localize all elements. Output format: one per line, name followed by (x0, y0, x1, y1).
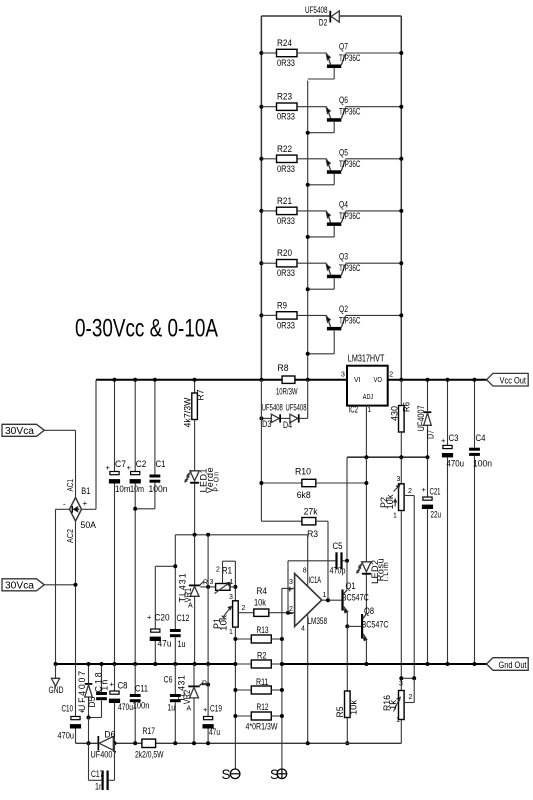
svg-text:R4: R4 (257, 586, 268, 596)
svg-text:VR1: VR1 (183, 588, 193, 603)
node D7 output tap (426, 378, 430, 382)
resistor R21 0R33 (261, 210, 276, 212)
capacitor C10 470u (71, 717, 80, 720)
svg-text:+: + (422, 485, 427, 494)
wire R1 right to loop (230, 586, 235, 588)
svg-text:UF5408: UF5408 (262, 403, 283, 413)
svg-text:+: + (110, 680, 115, 689)
wire base bus (307, 81, 309, 380)
node left rail junction row R24 (259, 51, 263, 55)
shunt reference VR2 TL431 (193, 664, 195, 686)
node left rail junction row R20 (259, 261, 263, 265)
wire LED2 to Q8 collector (365, 575, 367, 613)
wire R1 wiper loop (222, 561, 224, 583)
node jumper right (412, 676, 416, 680)
wire ground rail left (56, 663, 236, 665)
wire top bus from left rail to D2 (261, 15, 330, 17)
svg-text:1n: 1n (95, 782, 103, 792)
svg-text:C10: C10 (62, 704, 74, 714)
svg-text:AC1: AC1 (66, 479, 75, 492)
svg-text:10k: 10k (385, 494, 395, 510)
wire R8 to IC2 VI (295, 379, 347, 381)
node inverting input junction (286, 611, 290, 615)
svg-text:Q2: Q2 (339, 304, 348, 314)
node right rail junction Q7 (399, 51, 403, 55)
svg-text:UF4007: UF4007 (416, 405, 426, 431)
svg-text:100n: 100n (133, 701, 150, 711)
wire P1 wiper to R4 (238, 612, 254, 614)
node base bus junction Q4 (306, 235, 310, 239)
svg-text:R2: R2 (257, 651, 267, 661)
node bypass left junction (259, 416, 263, 420)
svg-text:C6: C6 (164, 675, 173, 685)
node C1 C2 junction (133, 507, 137, 511)
terminal Vcc Out (487, 373, 529, 386)
wire C20 branch (155, 565, 175, 567)
wire ground rail right (282, 663, 487, 665)
wire R20 to Q3 emitter (297, 262, 327, 264)
wire ADJ pin down (365, 406, 367, 458)
svg-text:3: 3 (229, 594, 233, 601)
resistor R24 0R33 (261, 52, 276, 54)
svg-text:3: 3 (399, 681, 403, 688)
svg-text:0R33: 0R33 (277, 164, 295, 174)
op-amp IC1A LM358 (295, 574, 322, 627)
svg-text:ADJ: ADJ (363, 392, 374, 401)
wire 30Vca to bridge AC1 (44, 429, 75, 431)
node output R3 feedback (326, 598, 330, 602)
transistor Q1 BC547C (341, 590, 343, 611)
node R10 to LED2 line (364, 481, 368, 485)
node LED1 reference (193, 533, 197, 537)
node C7 ground C8 top (113, 662, 117, 666)
wire bridge negative to ground (56, 508, 70, 510)
capacitor C11 100n (134, 664, 136, 694)
capacitor C1 100n (154, 380, 156, 475)
svg-text:+: + (441, 436, 446, 445)
svg-text:47u: 47u (209, 727, 220, 737)
svg-text:A: A (188, 603, 193, 610)
node C20 ground (153, 662, 157, 666)
svg-text:R23: R23 (277, 92, 292, 102)
svg-text:D5: D5 (87, 696, 97, 707)
wire R22 to Q5 emitter (297, 158, 327, 160)
trimmer R1 (216, 584, 230, 591)
svg-text:1: 1 (229, 629, 233, 636)
svg-text:Q5: Q5 (339, 147, 348, 157)
diode D2 UF5408 (329, 11, 331, 23)
node C19 negative rail (206, 741, 210, 745)
wire output to Q1 base (322, 599, 342, 601)
svg-text:R12: R12 (257, 702, 269, 712)
svg-text:Q1: Q1 (346, 581, 356, 591)
wire C5 right to ADJ column (343, 560, 347, 562)
node VR2 ref junction (206, 683, 210, 687)
svg-text:TIP36C: TIP36C (339, 159, 361, 169)
svg-text:C3: C3 (449, 433, 459, 443)
transistor Q4 TIP36C (327, 212, 331, 223)
svg-text:UF5408: UF5408 (305, 5, 328, 15)
wire sense bus S+ column (281, 588, 283, 769)
svg-text:3: 3 (210, 579, 214, 586)
svg-text:IC2: IC2 (349, 405, 359, 415)
node R13 right (280, 637, 284, 641)
svg-text:VO: VO (374, 375, 383, 384)
node R7 raw rail (193, 378, 197, 382)
resistor R2 (235, 663, 251, 665)
svg-text:10m: 10m (130, 484, 144, 494)
wire op-amp power pin 8 (307, 535, 309, 586)
svg-text:TIP36C: TIP36C (339, 107, 361, 117)
capacitor C17 1n (88, 743, 90, 780)
transistor Q6 TIP36C (327, 107, 331, 118)
node R5 to negative rail (345, 741, 349, 745)
node C20 branch (173, 564, 177, 568)
wire D5 node to negative rail (88, 718, 90, 744)
node R2 left ground rail end (233, 662, 237, 666)
wire Q1 emitter down (346, 611, 348, 626)
svg-text:47u: 47u (158, 639, 172, 649)
svg-text:R6: R6 (402, 402, 412, 412)
wire jumper to R16 wiper (413, 678, 415, 702)
capacitor C5 470p (335, 552, 337, 569)
bridge rectifier B1 50A (70, 498, 82, 522)
svg-text:TIP36C: TIP36C (339, 211, 361, 221)
svg-text:470u: 470u (58, 731, 75, 741)
svg-text:27k: 27k (304, 507, 319, 517)
resistor R11 (235, 689, 251, 691)
wire Q1 emitter to Q8 base (347, 625, 361, 627)
svg-text:3: 3 (397, 476, 401, 483)
node right rail junction Q3 (399, 261, 403, 265)
transistor Q2 TIP36C (327, 316, 331, 327)
svg-text:R21: R21 (277, 196, 292, 206)
ground symbol GND (55, 664, 57, 678)
svg-text:R22: R22 (277, 144, 292, 154)
wire Q2 collector to right rail (345, 314, 401, 316)
node C2 raw rail (133, 378, 137, 382)
wire P2 bottom to R16 (400, 511, 402, 691)
svg-text:0-30Vcc & 0-10A: 0-30Vcc & 0-10A (75, 315, 218, 343)
wire LED1 to reference node (194, 484, 196, 535)
wire R21 to Q4 emitter (297, 210, 327, 212)
svg-text:C2: C2 (136, 459, 147, 469)
wire left input rail (emitter rail) (260, 16, 262, 380)
transistor Q7 TIP36C (327, 54, 331, 65)
node VR2 negative rail (192, 741, 196, 745)
resistor R20 0R33 (261, 262, 276, 264)
svg-text:50A: 50A (81, 520, 97, 530)
node base bus junction Q5 (306, 183, 310, 187)
diode D3 UF5408 (271, 414, 279, 422)
node collector rail to VO (399, 378, 403, 382)
wire R10 right to LED2 line (316, 482, 367, 484)
wire 30Vca to bridge AC2 (44, 584, 75, 586)
node base bus junction Q3 (306, 287, 310, 291)
transistor Q3 TIP36C (327, 264, 331, 275)
svg-text:1u: 1u (178, 639, 186, 649)
wire C1 joins C2 column (135, 508, 155, 510)
svg-text:C8: C8 (118, 681, 128, 691)
svg-text:R1: R1 (222, 566, 232, 576)
node ref junction (206, 585, 210, 589)
capacitor C4 100n (474, 380, 476, 448)
svg-text:R20: R20 (277, 248, 292, 258)
LED1 Verde P-On (190, 471, 199, 481)
svg-text:VR2: VR2 (182, 690, 192, 705)
wire R3 right to output (316, 520, 328, 522)
wire IC2 VO to output (388, 379, 487, 381)
svg-text:R5: R5 (335, 706, 345, 717)
capacitor C3 470u (447, 380, 449, 446)
wire VR2 ref to C19 column (200, 684, 208, 686)
node C5 ADJ column (345, 559, 349, 563)
svg-text:100n: 100n (149, 484, 168, 494)
svg-text:1: 1 (396, 717, 400, 724)
wire ADJ node horizontal (347, 456, 428, 458)
node R13 left (233, 637, 237, 641)
wire C12 column (174, 535, 176, 629)
svg-text:Q6: Q6 (339, 95, 348, 105)
svg-text:UF5408: UF5408 (286, 403, 307, 413)
svg-text:R10: R10 (295, 467, 311, 477)
wire Q3 collector to right rail (345, 262, 401, 264)
wire left rail down to R10 R3 (260, 380, 262, 522)
node right rail junction Q4 (399, 209, 403, 213)
svg-text:2: 2 (409, 694, 413, 701)
resistor R13 (235, 638, 251, 640)
node R12 left (233, 714, 237, 718)
svg-text:C20: C20 (155, 613, 170, 623)
svg-text:P-On: P-On (214, 472, 221, 492)
svg-text:GND: GND (49, 685, 64, 695)
svg-text:2: 2 (242, 605, 246, 612)
node ref column top (206, 533, 210, 537)
node left rail junction row R22 (259, 157, 263, 161)
svg-text:2: 2 (408, 488, 412, 495)
resistor R17 2k2/0,5W (142, 739, 156, 747)
node C7 raw rail (113, 378, 117, 382)
svg-text:UF4007: UF4007 (91, 750, 117, 760)
terminal 30Vca upper (2, 424, 44, 436)
svg-text:R8: R8 (278, 363, 289, 373)
svg-text:AC2: AC2 (66, 529, 75, 543)
node raw supply rail to left rail (259, 378, 263, 382)
wire D3 to D4 (281, 417, 290, 419)
svg-text:R17: R17 (143, 726, 156, 736)
svg-text:TIP36C: TIP36C (339, 53, 361, 63)
svg-text:Gnd Out: Gnd Out (499, 660, 527, 670)
svg-text:22u: 22u (431, 510, 442, 520)
node Q8 emitter ground (364, 662, 368, 666)
node C18 ground (100, 662, 104, 666)
diode D7 UF4007 (427, 380, 429, 412)
capacitor C8 470u (114, 664, 116, 691)
resistor R8 10R/3W (282, 376, 295, 383)
node C21 ground (426, 662, 430, 666)
wire inverting input from R4 (269, 612, 295, 614)
node left rail junction row R23 (259, 105, 263, 109)
resistor R22 0R33 (261, 158, 276, 160)
node VR1 anode ground (193, 662, 197, 666)
svg-text:470u: 470u (118, 702, 133, 712)
svg-text:10m: 10m (115, 484, 131, 494)
node base bus to VI (306, 378, 310, 382)
node right rail junction Q6 (399, 105, 403, 109)
svg-text:+: + (203, 705, 208, 714)
svg-text:3: 3 (341, 372, 345, 379)
svg-text:R9: R9 (277, 300, 287, 310)
svg-text:1u: 1u (168, 703, 176, 713)
potentiometer R16 1k (399, 691, 405, 720)
terminal Gnd Out (487, 658, 529, 671)
svg-text:-: - (63, 500, 66, 509)
wire ADJ column down to Q1 collector (346, 457, 348, 561)
wire bypass D3 D4 left leg (261, 417, 271, 419)
wire R16 jumper top (401, 677, 414, 679)
svg-text:B1: B1 (81, 486, 90, 496)
node C3 ground (446, 662, 450, 666)
capacitor C19 47u (207, 664, 209, 717)
svg-text:A: A (187, 706, 192, 713)
svg-text:Q4: Q4 (339, 199, 348, 209)
node R10 left (259, 481, 263, 485)
svg-text:C12: C12 (177, 613, 190, 623)
resistor R7 4k7/3W (194, 380, 196, 393)
svg-text:6k8: 6k8 (297, 490, 311, 500)
node R1 right pin (233, 585, 237, 589)
node base bus junction Q2 (306, 352, 310, 356)
svg-text:C19: C19 (210, 704, 222, 714)
svg-text:LM317HVT: LM317HVT (348, 354, 385, 365)
svg-text:R13: R13 (257, 625, 269, 635)
svg-text:+: + (127, 463, 132, 472)
node D7 C21 to ADJ (426, 455, 430, 459)
svg-text:1: 1 (367, 407, 371, 414)
node R11 left (233, 688, 237, 692)
diode D6 UF4007 (98, 736, 100, 751)
diode D4 UF5408 (290, 414, 298, 422)
node R2 right ground rail (280, 662, 284, 666)
node op-amp pin4 negative rail (306, 741, 310, 745)
svg-text:1: 1 (393, 513, 397, 520)
resistor R3 27k (261, 520, 302, 522)
wire bridge positive to raw rail (82, 508, 97, 510)
node left rail junction row R9 (259, 313, 263, 317)
svg-text:IC1A: IC1A (309, 575, 322, 585)
wire LED2 branch from ADJ (365, 457, 367, 562)
svg-text:100n: 100n (473, 459, 492, 469)
capacitor C7 10m (114, 380, 116, 472)
svg-text:C17: C17 (91, 769, 104, 779)
svg-text:R7: R7 (196, 389, 206, 400)
svg-text:8: 8 (303, 568, 307, 575)
node Q1 emitter Q8 base (345, 624, 349, 628)
resistor R6 430 (400, 380, 402, 406)
svg-text:D3: D3 (262, 419, 272, 429)
wire reference node horizontal (175, 534, 307, 536)
capacitor C20 47u (154, 566, 156, 629)
resistor R23 0R33 (261, 106, 276, 108)
capacitor C6 1u (174, 664, 176, 694)
svg-text:0R33: 0R33 (277, 268, 295, 278)
svg-text:10k: 10k (254, 598, 267, 608)
svg-text:D4: D4 (283, 420, 292, 430)
svg-text:1k: 1k (388, 699, 398, 710)
node ref column ground (206, 662, 210, 666)
transistor Q8 BC547C (361, 614, 363, 639)
wire VR1 ref to R1 (200, 586, 215, 588)
resistor R12 4*0R1/3W (235, 715, 251, 717)
svg-text:1: 1 (323, 592, 327, 599)
svg-text:TIP36C: TIP36C (339, 315, 361, 325)
diode D5 UF4007 (88, 664, 90, 683)
wire R23 to Q6 emitter (297, 106, 327, 108)
svg-text:30Vca: 30Vca (5, 581, 34, 592)
node right rail junction Q5 (399, 157, 403, 161)
wire Q6 collector to right rail (345, 106, 401, 108)
wire P2 wiper bus down to R16 (413, 496, 415, 679)
node C12 ground C6 top (173, 662, 177, 666)
wire Q7 collector to right rail (345, 52, 401, 54)
wire Q4 collector to right rail (345, 210, 401, 212)
capacitor C18 1n (101, 664, 103, 692)
resistor R9 0R33 (261, 314, 276, 316)
node C11 negative rail (133, 741, 137, 745)
wire raw supply rail (96, 379, 282, 381)
op-amp regulator IC2 LM317HVT (347, 366, 388, 406)
svg-text:430: 430 (390, 406, 400, 421)
svg-text:1: 1 (230, 579, 234, 586)
wire D4 to VI riser (300, 417, 308, 419)
svg-text:470u: 470u (447, 459, 465, 469)
node C2 ground C11 top (133, 662, 137, 666)
svg-text:2: 2 (216, 567, 220, 574)
wire ref column down (207, 535, 209, 664)
wire D5 C18 join (89, 717, 102, 719)
svg-text:470p: 470p (330, 566, 346, 576)
wire negative rail (76, 742, 98, 744)
node C3 output tap (446, 378, 450, 382)
svg-text:+: + (147, 613, 152, 622)
node R12 right (280, 714, 284, 718)
svg-text:TIP36C: TIP36C (339, 263, 361, 273)
wire Q5 collector to right rail (345, 158, 401, 160)
svg-text:Q8: Q8 (364, 606, 374, 616)
node left rail junction row R21 (259, 209, 263, 213)
svg-text:C4: C4 (476, 433, 486, 443)
svg-text:4k7/3W: 4k7/3W (182, 397, 192, 428)
wire AC2 column to C10 (75, 585, 77, 717)
svg-text:2: 2 (389, 372, 393, 379)
node D5 C18 junction (87, 716, 91, 720)
svg-text:C21: C21 (430, 487, 441, 497)
svg-text:R24: R24 (277, 38, 292, 48)
LED2 Rosu i.Lim (362, 562, 371, 572)
svg-text:C1: C1 (156, 459, 166, 469)
node R11 right (280, 688, 284, 692)
capacitor C12 1u (170, 629, 181, 632)
svg-text:0R33: 0R33 (277, 112, 295, 122)
svg-text:+: + (106, 463, 111, 472)
svg-text:0R33: 0R33 (277, 58, 295, 68)
node negative rail D5 (87, 741, 91, 745)
wire C2 column to ground rail (134, 484, 136, 665)
node C8 negative rail (113, 741, 117, 745)
svg-text:Vcc Out: Vcc Out (500, 375, 527, 385)
svg-text:R3: R3 (307, 529, 318, 539)
node C4 ground (473, 662, 477, 666)
